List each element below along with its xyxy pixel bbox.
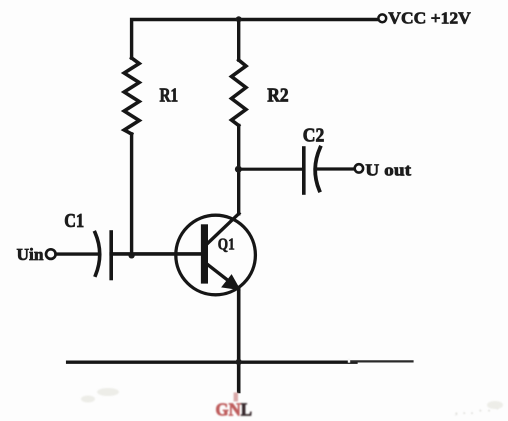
node junction C2 tap: [235, 166, 242, 173]
terminal VCC: [378, 14, 386, 22]
wire Uin to C1: [56, 252, 97, 255]
transistor Q1 base bar: [201, 224, 208, 283]
svg-text:R1: R1: [160, 84, 179, 106]
wire R2 bottom to collector: [237, 126, 240, 214]
artifact smudge bottom left: [81, 388, 503, 409]
transistor Q1 emitter arrowhead: [223, 276, 240, 290]
ground artifact white notch: [348, 359, 350, 363]
wire C2 to U out terminal: [316, 167, 355, 170]
svg-text:U out: U out: [365, 161, 411, 180]
svg-text:C2: C2: [303, 124, 325, 146]
svg-text:C1: C1: [64, 210, 84, 232]
wire junction to C2: [239, 168, 304, 171]
svg-text:Q1: Q1: [218, 234, 235, 253]
wire VCC top rail with left corner down to R1: [132, 20, 378, 59]
terminal Uin: [46, 249, 56, 259]
capacitor C1 right plate: [109, 232, 113, 279]
wire R1 bottom to base junction: [130, 134, 133, 256]
svg-text:VCC +12V: VCC +12V: [388, 8, 471, 27]
resistor R2: [232, 60, 247, 126]
wire R2 branch upper: [237, 20, 240, 61]
capacitor C1 left curved plate: [95, 233, 100, 276]
capacitor C2 left plate: [302, 148, 306, 193]
resistor R1: [124, 58, 139, 134]
svg-text:Uin: Uin: [17, 245, 45, 264]
svg-text:GNL: GNL: [216, 400, 253, 420]
transistor Q1 body circle: [176, 215, 256, 295]
terminal U out: [355, 164, 363, 172]
capacitor C2 right curved plate: [315, 148, 320, 191]
wire base from C1 to transistor: [111, 252, 203, 256]
node junction R1/base wire: [128, 252, 134, 258]
label GND: [216, 393, 253, 420]
node top junction of R2 branch: [236, 16, 242, 22]
wire emitter down to ground: [237, 289, 241, 392]
ground bus line right faded tail: [350, 360, 413, 362]
ground bus line: [68, 361, 356, 364]
transistor Q1 emitter lead: [208, 265, 233, 284]
node junction ground: [236, 359, 242, 365]
svg-text:R2: R2: [267, 85, 288, 107]
transistor Q1 collector lead: [208, 214, 240, 244]
